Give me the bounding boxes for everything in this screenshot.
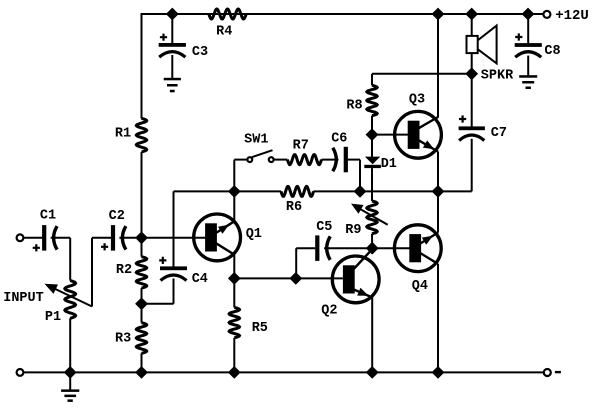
- capacitor C2 plus sign: [101, 243, 108, 250]
- junction Q1-collector/R5 node: [228, 272, 241, 285]
- junction Q2 emitter bottom rail: [366, 366, 379, 379]
- wire R8 corner to speaker node: [372, 73, 472, 75]
- switch SW1 lever: [252, 150, 273, 157]
- wire C6 right: [348, 159, 360, 161]
- junction R5 bottom rail: [228, 366, 241, 379]
- wire D1 top: [371, 135, 373, 157]
- wire output line left segment: [174, 190, 282, 192]
- junction R8-D1-Q3base node: [366, 128, 379, 141]
- junction C5 node on Q2-base line: [289, 272, 302, 285]
- resistor R3: [136, 323, 146, 354]
- wire C7 top: [471, 74, 473, 127]
- wire SW1 left vertical: [233, 160, 235, 192]
- junction C6 node on output line: [354, 185, 367, 198]
- wire R3 to bottom rail: [141, 353, 143, 372]
- wire D1 to R9: [371, 168, 373, 201]
- transistor Q3: [395, 111, 442, 158]
- wire Q1-collector to Q2 base: [234, 277, 343, 279]
- capacitor C8: [515, 43, 542, 47]
- svg-text:Q4: Q4: [412, 279, 428, 294]
- R9 arrow line: [354, 206, 388, 225]
- wire R8 top corner: [371, 74, 373, 86]
- svg-text:INPUT: INPUT: [3, 291, 44, 306]
- capacitor C2: [111, 225, 115, 251]
- resistor R9: [367, 201, 377, 234]
- junction P1-ground on bottom rail: [64, 366, 77, 379]
- capacitor C4: [160, 266, 187, 270]
- switch SW1 left contact: [247, 157, 252, 162]
- wire left vertical R1 branch top: [141, 13, 143, 119]
- svg-text:D1: D1: [381, 157, 397, 172]
- svg-text:SW1: SW1: [244, 133, 268, 148]
- resistor R1: [136, 118, 146, 152]
- svg-text:R1: R1: [115, 127, 131, 142]
- wire speaker bottom: [471, 53, 473, 74]
- input terminal: [17, 234, 24, 241]
- wire bottom ground rail: [24, 371, 544, 373]
- svg-text:C8: C8: [544, 44, 560, 59]
- wire Q1 base: [142, 237, 206, 239]
- svg-text:C5: C5: [316, 220, 332, 235]
- switch SW1 right contact: [269, 157, 274, 162]
- wire C6 down to output line: [359, 160, 361, 192]
- resistor R6: [281, 186, 314, 196]
- wire C5 right: [324, 247, 372, 249]
- wire C4 to R2-R3 node: [142, 303, 174, 305]
- resistor R8: [367, 85, 377, 115]
- svg-text:C3: C3: [192, 45, 208, 60]
- wire C8 to ground: [527, 56, 529, 76]
- junction R3 bottom rail: [135, 366, 148, 379]
- wire C1 to P1 corner: [51, 237, 71, 239]
- junction R9/C5/Q2-collector/Q4-base node: [366, 242, 379, 255]
- potentiometer P1: [65, 281, 76, 319]
- speaker SPKR: [467, 36, 478, 53]
- capacitor C5: [315, 235, 319, 261]
- junction Q4 bottom rail: [432, 366, 445, 379]
- wire speaker top: [471, 14, 473, 36]
- wire Q4 emitter up: [437, 191, 439, 232]
- wire P1 to bottom rail: [69, 318, 71, 372]
- capacitor C8 plus sign: [515, 33, 522, 40]
- resistor R5: [229, 307, 239, 337]
- svg-text:Q1: Q1: [246, 227, 262, 242]
- R9 variable arrow: [351, 204, 364, 214]
- wire output line right segment: [314, 190, 472, 192]
- junction C3 rail: [166, 8, 179, 21]
- svg-text:R8: R8: [346, 99, 362, 114]
- svg-text:C4: C4: [192, 272, 208, 287]
- junction Q3-emitter node on output line: [432, 185, 445, 198]
- wire SW1 to R7: [274, 159, 288, 161]
- junction C8 rail: [522, 8, 535, 21]
- svg-text:Q3: Q3: [409, 93, 425, 108]
- wire R8 to base node: [371, 116, 373, 135]
- wire Q2 emitter down: [371, 297, 373, 372]
- P1 wiper line: [48, 286, 92, 307]
- ground below bottom rail: [61, 389, 79, 392]
- wire R3 top: [141, 304, 143, 323]
- capacitor C6: [344, 147, 348, 173]
- transistor Q2: [332, 256, 379, 303]
- wire Q3 emitter down: [437, 152, 439, 192]
- wire Q1 collector down: [233, 255, 235, 279]
- wire R1 bottom to C2 node: [141, 152, 143, 238]
- wire top +12V rail: [142, 13, 544, 15]
- junction speaker top rail: [465, 8, 478, 21]
- capacitor C1: [42, 225, 46, 251]
- junction R2-R3-C4 node: [135, 297, 148, 310]
- wire input to C1: [23, 237, 42, 239]
- wire down to P1: [69, 238, 71, 281]
- svg-text:C2: C2: [109, 209, 125, 224]
- svg-text:C6: C6: [331, 132, 347, 147]
- wire Q4 base: [372, 247, 409, 249]
- capacitor C3 plus sign: [160, 34, 167, 41]
- wire C5 left stub: [296, 247, 315, 249]
- svg-text:SPKR: SPKR: [481, 69, 514, 84]
- wire R7 to C6: [322, 159, 339, 161]
- wire Q3 base: [372, 134, 408, 136]
- capacitor C3 wire from rail: [171, 14, 173, 44]
- svg-text:+12U: +12U: [555, 8, 589, 24]
- wire C4 bottom: [173, 279, 175, 304]
- wire wiper vertical to C2: [91, 238, 93, 307]
- diode D1: [365, 157, 380, 165]
- junction speaker-R8-C7 node: [465, 67, 478, 80]
- wire C3 to ground: [171, 55, 173, 79]
- wire R2 top: [141, 238, 143, 257]
- wire R5 top: [233, 278, 235, 307]
- capacitor C7: [459, 126, 485, 130]
- wire R5 bottom: [233, 338, 235, 373]
- svg-text:R7: R7: [293, 139, 309, 154]
- wire bottom rail to ground symbol: [69, 372, 71, 389]
- label minus: [555, 371, 561, 373]
- svg-text:C7: C7: [491, 126, 507, 141]
- transistor Q4: [394, 225, 441, 272]
- capacitor C3: [159, 43, 186, 47]
- svg-text:R4: R4: [216, 25, 232, 40]
- junction Q3 collector rail: [432, 8, 445, 21]
- resistor R2: [136, 257, 146, 288]
- svg-text:R9: R9: [345, 223, 361, 238]
- svg-text:C1: C1: [40, 209, 56, 224]
- svg-text:R5: R5: [252, 321, 268, 336]
- wire R9 bottom: [371, 234, 373, 248]
- ground below C8: [519, 75, 537, 78]
- transistor Q1: [194, 214, 241, 261]
- svg-text:R6: R6: [286, 200, 302, 215]
- wire Q4 collector down: [437, 264, 439, 373]
- wire SW1 left stub: [234, 159, 247, 161]
- wire R2 to R3 node: [141, 288, 143, 304]
- capacitor C4 plus sign: [159, 257, 166, 264]
- ground below C3: [164, 78, 181, 81]
- wire C2 to junction: [119, 237, 141, 239]
- capacitor C7 plus sign: [459, 115, 466, 122]
- svg-text:R2: R2: [116, 263, 132, 278]
- junction C2/R1/R2/Q1-base node: [135, 231, 148, 244]
- wire C8 top: [527, 14, 529, 43]
- svg-text:R3: R3: [115, 332, 131, 347]
- svg-text:Q2: Q2: [321, 304, 337, 319]
- wire C5 corner vertical: [295, 248, 297, 278]
- +12V terminal: [543, 11, 550, 18]
- negative terminal: [544, 369, 551, 376]
- resistor R7: [287, 155, 321, 165]
- capacitor C1 plus sign: [33, 244, 40, 251]
- ground terminal bottom-left: [17, 369, 24, 376]
- resistor R4: [209, 9, 246, 19]
- wire Q3 collector to rail: [437, 13, 439, 118]
- wire Q1 emitter up: [233, 191, 235, 221]
- svg-text:P1: P1: [45, 310, 61, 325]
- wire wiper to C2: [92, 237, 111, 239]
- wire C7 bottom: [471, 139, 473, 192]
- junction SW1/Q1 node on output line: [228, 185, 241, 198]
- wire C4 top from output line: [173, 191, 175, 266]
- P1 wiper arrow: [45, 284, 59, 294]
